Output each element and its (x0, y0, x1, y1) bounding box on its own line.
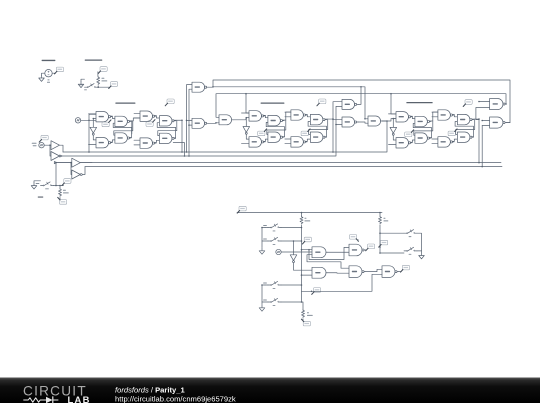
svg-text:fordsfords / Parity_1: fordsfords / Parity_1 (115, 386, 185, 395)
svg-text:http://circuitlab.com/cnm69je6: http://circuitlab.com/cnm69je6579zk (115, 394, 236, 403)
svg-text:LAB: LAB (68, 394, 91, 405)
